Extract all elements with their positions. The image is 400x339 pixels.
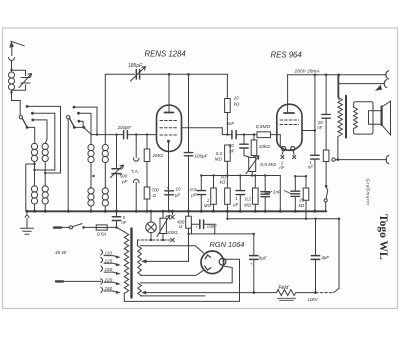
svg-text:Graßmann: Graßmann: [366, 179, 371, 206]
svg-text:0,5A: 0,5A: [97, 232, 106, 237]
svg-text:20: 20: [298, 198, 304, 203]
svg-text:0,5 MΩ: 0,5 MΩ: [260, 162, 276, 168]
svg-text:10: 10: [234, 95, 239, 100]
svg-text:220: 220: [104, 277, 113, 282]
svg-text:kΩ: kΩ: [220, 180, 226, 185]
svg-text:μF: μF: [174, 192, 180, 197]
svg-text:110: 110: [105, 251, 113, 256]
svg-text:240: 240: [104, 286, 113, 291]
svg-text:MΩ: MΩ: [215, 157, 223, 162]
svg-text:700: 700: [152, 188, 160, 193]
svg-text:kΩ: kΩ: [299, 203, 305, 208]
svg-text:20: 20: [228, 143, 234, 148]
svg-text:10μF: 10μF: [207, 223, 219, 228]
svg-text:280V 28mA: 280V 28mA: [294, 69, 320, 75]
svg-text:500: 500: [120, 174, 128, 179]
svg-text:150: 150: [105, 267, 113, 272]
svg-text:100V: 100V: [308, 297, 319, 302]
svg-text:μF: μF: [232, 202, 238, 207]
svg-text:0,3: 0,3: [216, 151, 223, 156]
svg-text:10kΩ: 10kΩ: [259, 144, 270, 149]
svg-text:nF: nF: [317, 125, 322, 130]
svg-text:MΩ: MΩ: [244, 202, 252, 207]
svg-text:1nF: 1nF: [273, 190, 282, 195]
svg-text:nF: nF: [279, 165, 284, 170]
svg-text:185pF: 185pF: [128, 63, 143, 69]
svg-text:MΩ: MΩ: [204, 203, 212, 208]
svg-text:RGN 1064: RGN 1064: [210, 240, 245, 249]
svg-text:5nF: 5nF: [226, 121, 235, 126]
svg-text:45 W: 45 W: [55, 250, 67, 256]
svg-text:4μF: 4μF: [321, 255, 330, 260]
svg-text:0,5: 0,5: [190, 187, 197, 192]
svg-text:kΩ: kΩ: [234, 101, 240, 106]
svg-text:T.A.: T.A.: [131, 169, 139, 174]
svg-text:RENS 1284: RENS 1284: [145, 50, 187, 59]
svg-text:100Ω: 100Ω: [167, 230, 178, 235]
svg-text:μF: μF: [190, 192, 196, 197]
svg-text:8μF: 8μF: [259, 255, 268, 260]
svg-text:10: 10: [176, 187, 181, 192]
svg-text:Togo WL: Togo WL: [377, 214, 389, 260]
svg-text:RES 964: RES 964: [271, 51, 303, 60]
svg-text:50: 50: [221, 174, 226, 179]
svg-text:125: 125: [105, 258, 113, 263]
svg-text:nF: nF: [229, 148, 234, 153]
svg-text:nF: nF: [308, 165, 313, 170]
svg-text:nF: nF: [121, 220, 126, 225]
svg-text:Feld: Feld: [279, 285, 289, 291]
svg-text:200pF: 200pF: [117, 125, 133, 131]
svg-text:0,5MΩ: 0,5MΩ: [256, 124, 271, 130]
svg-text:2MΩ: 2MΩ: [152, 153, 164, 159]
svg-text:0,2: 0,2: [245, 197, 252, 202]
svg-text:100μF: 100μF: [195, 153, 209, 158]
